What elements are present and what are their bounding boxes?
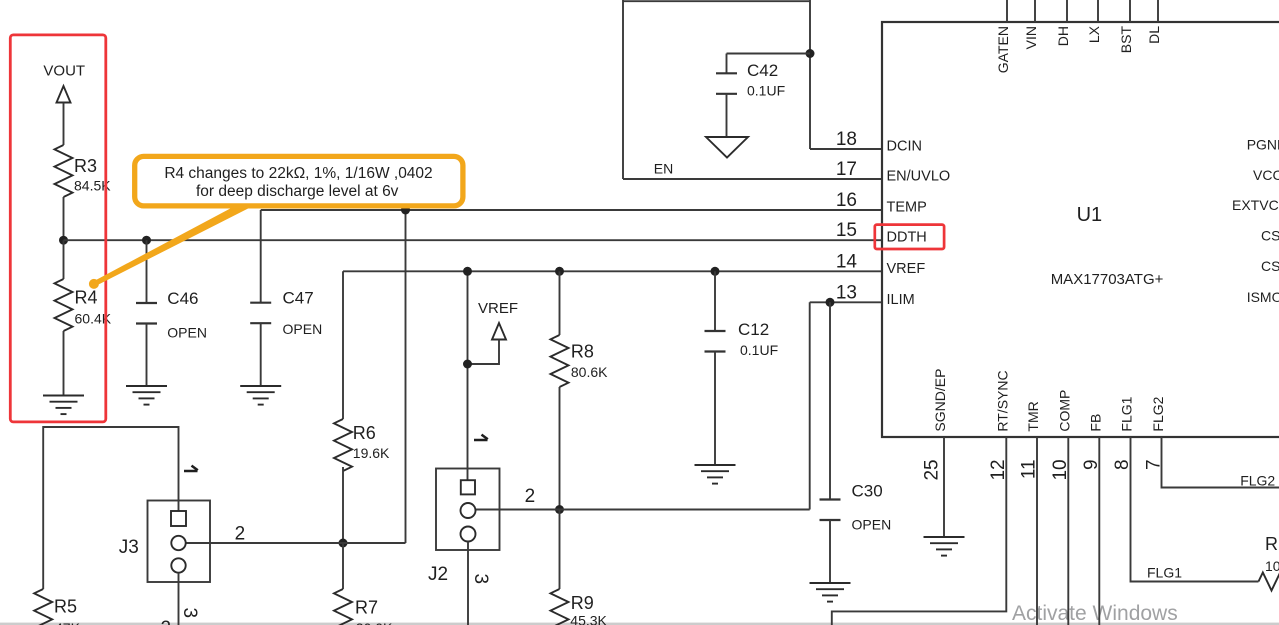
svg-text:FLG1: FLG1 <box>1119 396 1135 431</box>
svg-text:19.6K: 19.6K <box>353 445 390 461</box>
resistor R5 <box>34 589 52 625</box>
svg-text:COMP: COMP <box>1056 390 1072 432</box>
svg-text:EN: EN <box>654 161 673 177</box>
wire R8 to ILIM row <box>559 387 561 510</box>
connector J3 <box>148 501 211 583</box>
svg-text:45.3K: 45.3K <box>570 613 607 625</box>
svg-text:2: 2 <box>235 524 246 545</box>
wire TEMP net horizontal <box>261 209 882 211</box>
junction C46 tap <box>142 236 151 245</box>
svg-text:OPEN: OPEN <box>283 321 323 337</box>
U1 top pin DH <box>1066 0 1068 22</box>
svg-text:VCC: VCC <box>1253 167 1279 183</box>
junction R8/R9 tap <box>555 505 564 514</box>
svg-text:R8: R8 <box>571 342 594 362</box>
ground C30 <box>810 582 851 584</box>
junction C42 tap <box>806 49 815 58</box>
svg-text:C30: C30 <box>852 482 883 501</box>
junction J2 pin1 tap <box>463 267 472 276</box>
wire VREF line to J2 pin1 <box>467 271 469 480</box>
svg-text:13: 13 <box>836 282 857 303</box>
svg-text:FLG2: FLG2 <box>1240 472 1275 488</box>
svg-text:SGND/EP: SGND/EP <box>932 369 948 432</box>
svg-text:R1: R1 <box>1265 534 1279 554</box>
resistor R6 <box>334 419 352 471</box>
wire FLG2 net <box>1162 437 1279 488</box>
wire TEMP to J3 pin2 column <box>405 210 407 543</box>
wire VREF to R6 <box>342 271 344 419</box>
red highlight box VOUT divider <box>10 35 106 422</box>
wire VREF net horizontal <box>343 270 882 272</box>
svg-text:R6: R6 <box>353 423 376 443</box>
svg-text:U1: U1 <box>1077 204 1103 226</box>
wire VREF to R8 <box>559 271 561 335</box>
svg-text:CSP: CSP <box>1261 228 1279 244</box>
wire C42 horizontal <box>727 53 811 55</box>
VOUT arrow <box>57 86 71 103</box>
svg-text:GATEN: GATEN <box>995 26 1011 73</box>
svg-text:C47: C47 <box>283 288 314 307</box>
junction C30 tap <box>826 298 835 307</box>
svg-text:ILIM: ILIM <box>887 292 915 308</box>
svg-text:PGND: PGND <box>1247 137 1279 153</box>
wire TMR net <box>1036 437 1038 625</box>
callout leader dot <box>89 279 99 289</box>
junction C12 tap <box>711 267 720 276</box>
resistor R7 <box>342 543 344 589</box>
svg-text:20.0K: 20.0K <box>356 620 393 625</box>
svg-text:25: 25 <box>922 459 943 480</box>
resistor R8 <box>551 335 569 387</box>
junction R8 tap <box>555 267 564 276</box>
svg-text:ISMON: ISMON <box>1247 289 1279 305</box>
junction TEMP tap <box>401 206 410 215</box>
svg-text:R5: R5 <box>54 597 77 617</box>
op-amp U1 body <box>882 22 1279 437</box>
svg-text:for deep discharge level at 6v: for deep discharge level at 6v <box>196 183 399 200</box>
svg-text:RT/SYNC: RT/SYNC <box>994 370 1010 431</box>
wire ILIM pin 13 <box>810 301 882 303</box>
wire EN to U1 pin 17 <box>623 178 882 180</box>
callout leader wedge <box>92 207 252 287</box>
wire RT/SYNC net <box>832 437 1007 625</box>
svg-text:C42: C42 <box>747 61 778 80</box>
svg-text:R4: R4 <box>75 288 98 308</box>
svg-text:J2: J2 <box>428 564 448 585</box>
wire VOUT arrow to R3 <box>63 103 65 146</box>
wire R3 to node <box>63 197 65 240</box>
wire J3 pin3 down <box>178 573 180 625</box>
svg-text:R3: R3 <box>74 156 97 176</box>
svg-text:16: 16 <box>836 190 857 211</box>
bottom window edge band <box>0 623 1279 625</box>
wire J3 pin2 to junction <box>186 542 406 544</box>
svg-text:DDTH: DDTH <box>887 230 927 246</box>
svg-text:DL: DL <box>1146 26 1162 44</box>
capacitor C47 <box>260 210 262 303</box>
wire COMP net <box>1067 437 1069 625</box>
ground C46 <box>126 385 167 387</box>
wire FLG1 net <box>1131 437 1259 582</box>
red highlight box DDTH <box>875 225 944 249</box>
J3 pin1 number <box>184 466 198 471</box>
resistor R3 <box>55 145 73 197</box>
svg-text:VREF: VREF <box>478 300 518 317</box>
svg-text:J3: J3 <box>119 537 139 558</box>
wire DDTH net horizontal <box>64 239 883 241</box>
wire DCIN to U1 pin 18 <box>810 148 882 150</box>
wire ILIM down to J2 row <box>809 302 811 509</box>
junction VREF arrow tap <box>463 360 472 369</box>
connector J2 <box>436 469 500 551</box>
svg-text:18: 18 <box>836 129 857 150</box>
svg-text:3: 3 <box>470 574 491 585</box>
wire R4 to ground <box>63 331 65 396</box>
U1 top pin GATEN <box>1006 0 1008 22</box>
J3 pin2 circle <box>171 536 185 550</box>
wire VREF arrow elbow <box>468 340 500 365</box>
svg-text:3: 3 <box>179 608 200 619</box>
svg-text:VOUT: VOUT <box>43 63 85 80</box>
J3 pin1 square <box>171 511 186 526</box>
ground R4 <box>43 395 84 397</box>
wire top loop <box>623 0 810 2</box>
capacitor C30 <box>829 302 831 499</box>
J3 pin3 circle <box>171 558 185 572</box>
svg-text:BST: BST <box>1118 26 1134 54</box>
wire EN vertical from top <box>622 0 624 179</box>
U1 top pin LX <box>1097 0 1099 22</box>
callout box <box>135 156 463 206</box>
svg-text:14: 14 <box>836 251 858 272</box>
svg-text:0.1UF: 0.1UF <box>747 83 785 99</box>
svg-text:VREF: VREF <box>887 261 926 277</box>
svg-text:R9: R9 <box>571 593 594 613</box>
svg-text:FLG1: FLG1 <box>1147 565 1182 581</box>
svg-text:0.1UF: 0.1UF <box>740 342 778 358</box>
J2 pin3 circle <box>461 527 476 542</box>
svg-text:MAX17703ATG+: MAX17703ATG+ <box>1051 271 1164 288</box>
wire R5/J3 elbow <box>43 427 178 589</box>
resistor R10 <box>1259 573 1279 591</box>
svg-text:DCIN: DCIN <box>887 139 922 155</box>
svg-text:2: 2 <box>525 486 536 507</box>
power ground triangle C42 <box>706 137 748 158</box>
capacitor C12 <box>714 271 716 331</box>
node R3/R4 junction <box>59 236 68 245</box>
svg-text:17: 17 <box>836 159 857 180</box>
svg-text:80.6K: 80.6K <box>571 364 608 380</box>
svg-text:C46: C46 <box>167 289 198 308</box>
U1 top pin VIN <box>1034 0 1036 22</box>
svg-text:EXTVCC: EXTVCC <box>1232 197 1279 213</box>
svg-text:EN/UVLO: EN/UVLO <box>887 169 951 185</box>
svg-text:CSN: CSN <box>1261 258 1279 274</box>
capacitor C42 <box>726 54 728 74</box>
junction R6/R7/J3 <box>339 539 348 548</box>
ground C12 <box>695 464 736 466</box>
J2 pin2 circle <box>461 503 476 518</box>
wire node to R4 <box>63 240 65 279</box>
svg-text:2: 2 <box>161 618 172 625</box>
resistor R9 <box>559 510 561 590</box>
U1 top pin DL <box>1157 0 1159 22</box>
svg-text:DH: DH <box>1055 26 1071 46</box>
wire FB net <box>1098 437 1100 625</box>
svg-text:OPEN: OPEN <box>167 325 207 341</box>
wire J2 pin3 down <box>467 542 469 625</box>
J2 pin1 square <box>461 480 475 494</box>
VREF arrow <box>492 323 506 340</box>
svg-text:FB: FB <box>1087 414 1103 432</box>
svg-text:TMR: TMR <box>1025 401 1041 431</box>
wire J2 pin2 row <box>476 509 810 511</box>
svg-text:47K: 47K <box>55 620 81 625</box>
U1 top pin BST <box>1129 0 1131 22</box>
svg-text:R4 changes to 22kΩ, 1%, 1/16W: R4 changes to 22kΩ, 1%, 1/16W ,0402 <box>164 165 432 182</box>
svg-text:R7: R7 <box>355 598 378 618</box>
svg-text:TEMP: TEMP <box>887 200 927 216</box>
ground pin 25 <box>924 536 965 538</box>
svg-text:15: 15 <box>836 220 857 241</box>
wire DCIN vertical from top <box>809 0 811 149</box>
svg-text:C12: C12 <box>738 320 769 339</box>
svg-text:LX: LX <box>1086 25 1102 43</box>
svg-text:OPEN: OPEN <box>852 517 892 533</box>
ground C47 <box>240 385 281 387</box>
J2 pin1 number <box>474 435 488 440</box>
capacitor C46 <box>146 240 148 303</box>
svg-text:FLG2: FLG2 <box>1150 396 1166 431</box>
svg-text:10.0K: 10.0K <box>1265 558 1279 574</box>
wire R6 to junction <box>342 467 344 543</box>
svg-text:VIN: VIN <box>1023 26 1039 49</box>
